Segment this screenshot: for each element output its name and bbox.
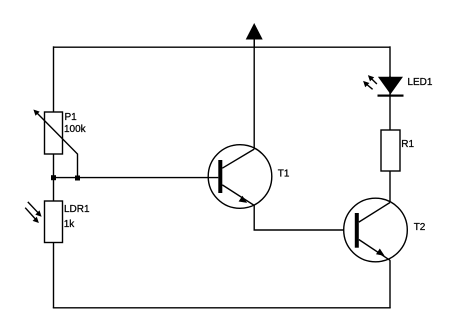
svg-text:R1: R1: [401, 139, 414, 150]
svg-text:LDR1: LDR1: [64, 204, 90, 215]
svg-text:T2: T2: [414, 222, 426, 233]
svg-text:100k: 100k: [64, 124, 87, 135]
svg-text:P1: P1: [65, 112, 78, 123]
svg-text:LED1: LED1: [407, 77, 432, 88]
svg-text:T1: T1: [278, 169, 290, 180]
svg-text:1k: 1k: [64, 219, 76, 230]
